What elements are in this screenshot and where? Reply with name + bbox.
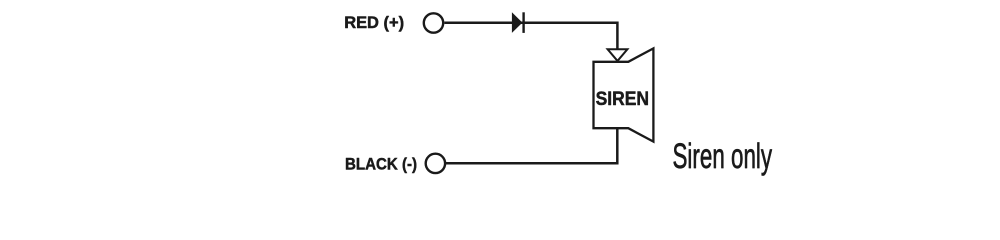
terminal BLACK bbox=[426, 154, 445, 173]
siren horn body bbox=[594, 48, 654, 141]
svg-text:RED (+): RED (+) bbox=[344, 13, 404, 32]
wire bottom bbox=[445, 128, 617, 163]
svg-text:SIREN: SIREN bbox=[596, 87, 649, 109]
svg-text:Siren only: Siren only bbox=[673, 137, 773, 176]
polarity arrow bbox=[608, 49, 628, 61]
wire top bbox=[444, 23, 617, 50]
diode bbox=[512, 12, 524, 33]
svg-text:BLACK (-): BLACK (-) bbox=[345, 155, 417, 174]
terminal RED bbox=[424, 13, 443, 32]
